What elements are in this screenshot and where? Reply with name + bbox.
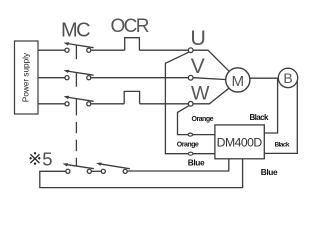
- black wire brake left to DM400D: [264, 79, 277, 133]
- motor M: [226, 68, 250, 92]
- wire U to motor: [193, 50, 231, 73]
- svg-text:MC: MC: [61, 20, 90, 42]
- wire L1 to terminal U: [139, 49, 188, 51]
- svg-text:U: U: [190, 26, 206, 50]
- wire W to motor: [193, 87, 231, 104]
- wire L1 segment from supply: [38, 49, 65, 51]
- svg-text:Power supply: Power supply: [21, 52, 30, 102]
- MC mechanical linkage dashed: [75, 122, 77, 166]
- contactor MC pole 2: [64, 70, 94, 87]
- wire L3 segment from supply: [38, 103, 65, 105]
- blue return wire bottom rail: [40, 159, 243, 188]
- svg-text:5: 5: [42, 148, 52, 169]
- contactor MC pole 3: [64, 96, 94, 116]
- svg-text:V: V: [191, 55, 205, 78]
- DM400D brake rectifier: [215, 125, 264, 159]
- connector on lower orange wire: [188, 152, 193, 155]
- svg-text:B: B: [283, 70, 292, 86]
- interlock switch S2: [96, 163, 130, 174]
- terminal W: [188, 101, 193, 106]
- interlock switch S1: [63, 163, 94, 173]
- svg-text:Orange: Orange: [192, 116, 214, 123]
- svg-text:DM400D: DM400D: [217, 136, 263, 150]
- OCR heater element phase 3: [124, 91, 139, 103]
- svg-text:Black: Black: [250, 113, 269, 122]
- brake B: [278, 68, 297, 87]
- svg-text:M: M: [231, 73, 244, 90]
- power supply: [15, 41, 39, 114]
- OCR heater element phase 1: [125, 38, 140, 51]
- connector on upper orange wire: [188, 133, 193, 136]
- orange wire W to DM400D: [178, 106, 215, 135]
- svg-text:OCR: OCR: [111, 16, 149, 37]
- wire between interlock switches: [92, 170, 101, 172]
- wire L2 segment from supply: [38, 77, 65, 79]
- svg-text:W: W: [191, 83, 210, 105]
- contactor MC pole 1: [64, 42, 94, 59]
- wire L3 to OCR: [91, 103, 124, 105]
- black wire brake right to DM400D: [264, 79, 297, 153]
- blue wire DM400D to switches: [128, 159, 229, 171]
- svg-text:Black: Black: [275, 141, 290, 148]
- svg-text:Blue: Blue: [261, 167, 278, 177]
- wire motor to brake: [248, 77, 288, 79]
- wire L3 to terminal W: [140, 103, 189, 105]
- wire V to motor: [193, 78, 227, 80]
- terminal U: [188, 48, 193, 53]
- wire L2 to terminal V: [91, 77, 188, 79]
- svg-text:Orange: Orange: [177, 142, 199, 149]
- wire L1 to OCR: [91, 49, 125, 51]
- terminal V: [188, 75, 193, 80]
- note symbol kome: [29, 152, 40, 165]
- orange wire U to DM400D: [165, 52, 215, 154]
- svg-text:Blue: Blue: [188, 157, 205, 167]
